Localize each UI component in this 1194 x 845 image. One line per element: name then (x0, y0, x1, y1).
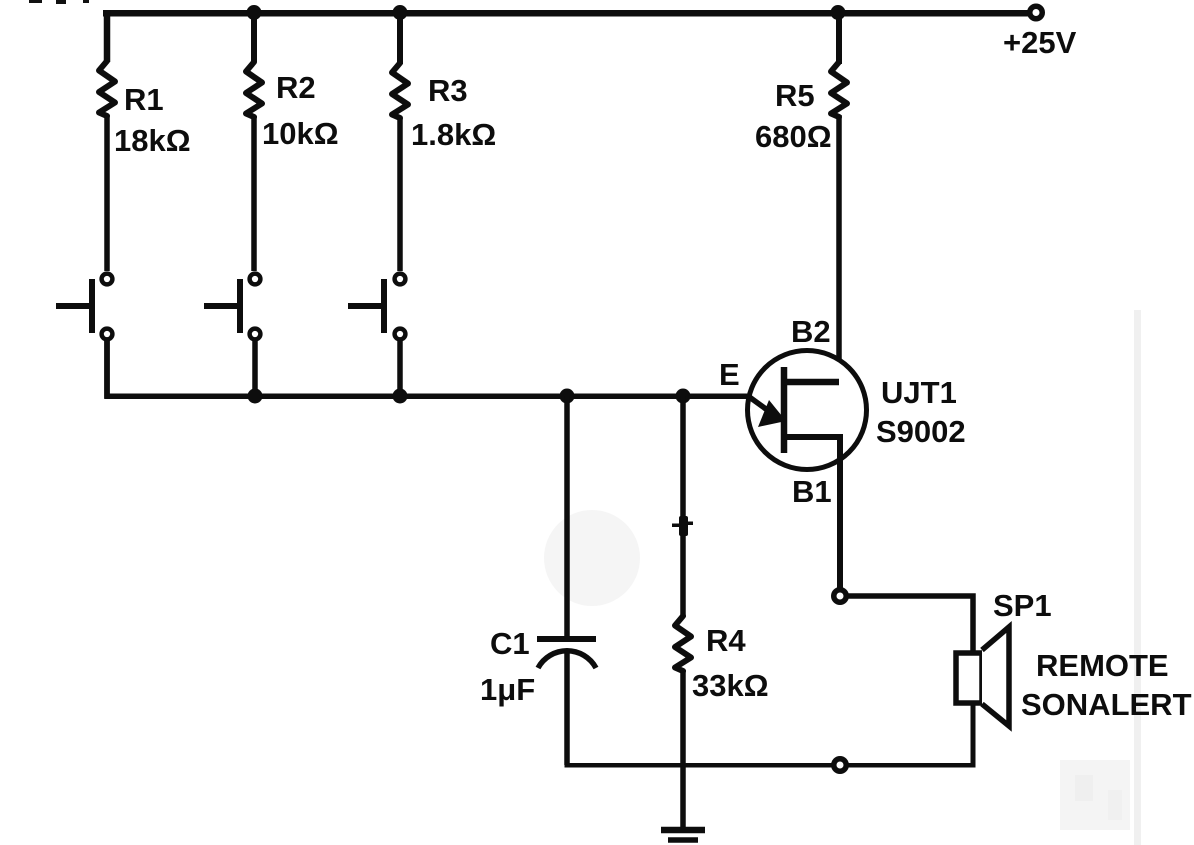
wire B1 terminal to speaker (847, 596, 973, 653)
svg-text:R2: R2 (276, 70, 316, 105)
switch S3 (348, 274, 405, 340)
resistor R3 (392, 63, 408, 118)
svg-text:R5: R5 (775, 78, 815, 113)
wire R5 top (836, 13, 842, 64)
resistor R2 (246, 62, 262, 117)
svg-text:R3: R3 (428, 73, 468, 108)
speaker SP1 (956, 627, 1009, 726)
svg-text:REMOTE: REMOTE (1036, 648, 1169, 683)
resistor R5 (831, 62, 847, 117)
wire S2 bottom (252, 341, 258, 398)
svg-text:1μF: 1μF (480, 672, 535, 707)
emitter arrow (748, 396, 770, 412)
switch S1 (56, 274, 112, 340)
svg-text:SONALERT: SONALERT (1021, 687, 1192, 722)
wire R2 to switch (251, 116, 257, 271)
junction top R2 (247, 5, 262, 20)
terminal bottom (834, 759, 847, 772)
junction C1 rail (560, 389, 575, 404)
wire S1 bottom (104, 341, 110, 398)
svg-text:C1: C1 (490, 626, 530, 661)
svg-text:33kΩ: 33kΩ (692, 668, 769, 703)
svg-text:B1: B1 (792, 474, 832, 509)
svg-text:R4: R4 (706, 623, 746, 658)
svg-text:+25V: +25V (1003, 25, 1077, 60)
wire R4 to ground (680, 670, 686, 828)
svg-text:680Ω: 680Ω (755, 119, 832, 154)
junction S2 rail (248, 389, 263, 404)
wire B2 lead (784, 379, 839, 386)
wire bottom rail (565, 655, 976, 768)
switch S2 (204, 274, 260, 340)
svg-text:UJT1: UJT1 (881, 375, 957, 410)
svg-text:R1: R1 (124, 82, 164, 117)
tick mark on R4 wire (672, 516, 693, 536)
junction top R5 (831, 5, 846, 20)
terminal B1 (834, 590, 847, 603)
wire R5 to B2 (836, 115, 842, 385)
svg-text:S9002: S9002 (876, 414, 966, 449)
capacitor C1 (537, 639, 596, 668)
wire R2 top (251, 13, 257, 62)
junction top R3 (393, 5, 408, 20)
wire C1 bottom (564, 649, 570, 765)
resistor R1 (99, 61, 115, 116)
terminal +25V (1030, 6, 1043, 19)
op-amp UJT1 circle (748, 351, 867, 470)
svg-text:B2: B2 (791, 314, 831, 349)
scan artifact stripe right (1134, 310, 1141, 845)
ground (661, 830, 705, 840)
wire emitter rail (104, 340, 748, 399)
cut-off text fragment top-left (29, 0, 89, 4)
junction R4 rail (676, 389, 691, 404)
wire R3 top (397, 13, 403, 64)
wire R3 to switch (397, 118, 403, 271)
svg-text:1.8kΩ: 1.8kΩ (411, 117, 496, 152)
svg-text:SP1: SP1 (993, 588, 1052, 623)
transistor UJT1 base bar (781, 367, 788, 453)
wire top rail (103, 10, 1035, 17)
svg-text:10kΩ: 10kΩ (262, 116, 339, 151)
wire S3 bottom (397, 341, 403, 398)
wire R1 to switch (104, 115, 110, 271)
resistor R4 wire top (680, 396, 686, 617)
resistor R4 (675, 616, 691, 671)
wire R1 top (104, 10, 111, 62)
svg-text:18kΩ: 18kΩ (114, 123, 191, 158)
capacitor C1 wire top (564, 396, 570, 637)
svg-text:E: E (719, 357, 740, 392)
wire B1 lead (784, 437, 840, 589)
junction S3 rail (393, 389, 408, 404)
